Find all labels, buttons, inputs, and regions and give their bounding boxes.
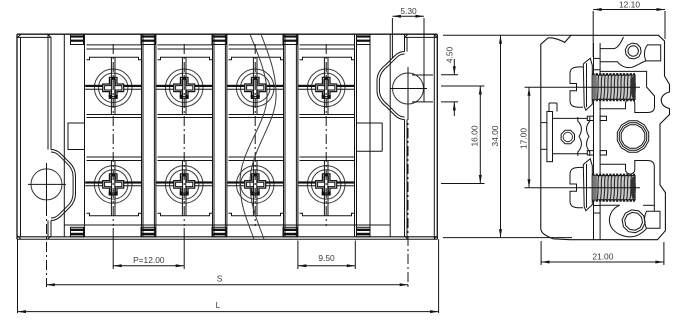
separator wall between pole 2 and 3 — [212, 34, 214, 237]
side view screw upper : washer — [583, 58, 592, 110]
right view outer outline — [541, 35, 670, 239]
dimension 21.00 (depth) — [540, 241, 542, 265]
left view top edge — [17, 33, 437, 35]
side view screw lower : tip — [631, 177, 636, 199]
right mounting slot — [412, 74, 433, 76]
metal strip channel — [593, 43, 595, 240]
svg-text:P=12.00: P=12.00 — [133, 255, 165, 265]
side view screw upper : tip — [631, 76, 636, 98]
left hole vertical center line — [46, 163, 48, 206]
top right screw hole — [625, 43, 641, 59]
side view screw lower : clamp bracket — [570, 167, 583, 207]
break wavy line left — [240, 34, 267, 239]
left end plate — [16, 34, 18, 239]
dimension 12.10 — [592, 11, 594, 57]
body side pocket left — [68, 123, 85, 150]
channel side ledges — [587, 116, 593, 120]
screw terminal pole 4 row 1 — [307, 69, 345, 107]
bottom right lobe outline — [609, 205, 646, 237]
left mounting ear — [51, 150, 76, 221]
dimension 9.50 (cell width) — [297, 241, 299, 270]
svg-text:21.00: 21.00 — [592, 252, 613, 262]
bowtie clamp spring — [578, 117, 582, 156]
svg-text:L: L — [216, 300, 221, 310]
dimension L (overall length) — [17, 239, 19, 313]
svg-text:17.00: 17.00 — [519, 128, 529, 149]
side view screw lower : washer — [583, 159, 592, 211]
dimension S (mounting hole spacing) — [46, 284, 408, 286]
body side pocket right — [357, 122, 383, 124]
pole 2 vertical center line — [183, 44, 185, 226]
side view screw upper : clamp bracket — [570, 67, 583, 107]
right hole horizontal center line — [390, 88, 427, 90]
small left circle (rail clip hole) — [561, 130, 574, 143]
wall 3-4 tabs — [283, 34, 298, 44]
cell shelf lines — [87, 44, 142, 46]
left end wall tabs — [71, 34, 84, 44]
dimension 17.00 (screw spacing side view) — [525, 86, 641, 88]
svg-text:4.50: 4.50 — [445, 47, 455, 64]
side view screw lower : threaded shaft — [592, 176, 635, 200]
left view bottom outer edge — [17, 238, 437, 240]
cell 1 left wall — [84, 34, 86, 237]
rail clip step — [548, 103, 550, 112]
pole 1 vertical center line — [112, 44, 114, 226]
pole 3 vertical center line — [254, 44, 256, 226]
end wall left edge — [63, 34, 65, 237]
screw terminal pole 1 row 1 — [94, 69, 132, 107]
svg-text:5.30: 5.30 — [400, 6, 417, 16]
right mounting ear — [377, 52, 405, 120]
top right pocket rectangle — [645, 45, 661, 61]
DIN rail clip T-bar — [547, 112, 553, 162]
screw terminal pole 3 row 2 — [236, 166, 274, 204]
bottom right screw hole — [622, 210, 645, 233]
bottom chamber cavity outline — [600, 161, 655, 212]
pole 4 vertical center line — [325, 44, 327, 226]
screw terminal pole 4 row 2 — [307, 166, 345, 204]
cavity mid floor lines — [553, 117, 588, 119]
right end wall tabs — [357, 34, 371, 44]
body right edge — [369, 34, 371, 237]
screw terminal pole 3 row 1 — [236, 69, 274, 107]
top right lobe outline — [600, 37, 623, 49]
screw terminal pole 2 row 2 — [165, 166, 203, 204]
right hole vertical center line — [407, 67, 409, 110]
plate corner bevels — [17, 34, 21, 38]
right end plate — [433, 34, 435, 239]
dimension 4.50 (slot width) — [441, 74, 458, 76]
S dim extension / right hole center line — [407, 110, 409, 287]
left view bottom edge — [17, 236, 437, 238]
right mounting hole — [393, 73, 424, 104]
dimension 5.30 (hole diameter) — [391, 18, 393, 58]
break wavy line right — [250, 34, 276, 239]
bottom right pocket rectangle — [645, 211, 660, 228]
wall 1-2 tabs — [141, 34, 156, 44]
left mounting hole — [31, 169, 62, 200]
end wall right edge — [389, 34, 391, 237]
svg-text:9.50: 9.50 — [318, 253, 335, 263]
left hole horizontal center line — [28, 183, 66, 185]
svg-text:12.10: 12.10 — [619, 0, 640, 10]
cell 4 right wall — [354, 34, 356, 237]
dimension 34.00 (overall height) — [443, 34, 571, 36]
central mounting hole — [617, 121, 648, 152]
screw terminal pole 1 row 2 — [94, 166, 132, 204]
full width lower body line — [64, 224, 390, 226]
top chamber cavity outline — [600, 71, 655, 112]
wall 2-3 tabs — [212, 34, 227, 44]
svg-text:S: S — [217, 274, 223, 284]
side view screw upper : threaded shaft — [592, 75, 635, 99]
dimension 16.00 (row spacing) — [441, 85, 485, 87]
dimension P=12.00 (pitch) — [112, 228, 114, 269]
screw terminal pole 2 row 1 — [165, 69, 203, 107]
svg-text:34.00: 34.00 — [490, 125, 500, 146]
separator wall between pole 3 and 4 — [283, 34, 285, 237]
separator wall between pole 1 and 2 — [141, 34, 143, 237]
svg-text:16.00: 16.00 — [470, 125, 480, 146]
S dim extension / hole center line — [46, 206, 48, 287]
